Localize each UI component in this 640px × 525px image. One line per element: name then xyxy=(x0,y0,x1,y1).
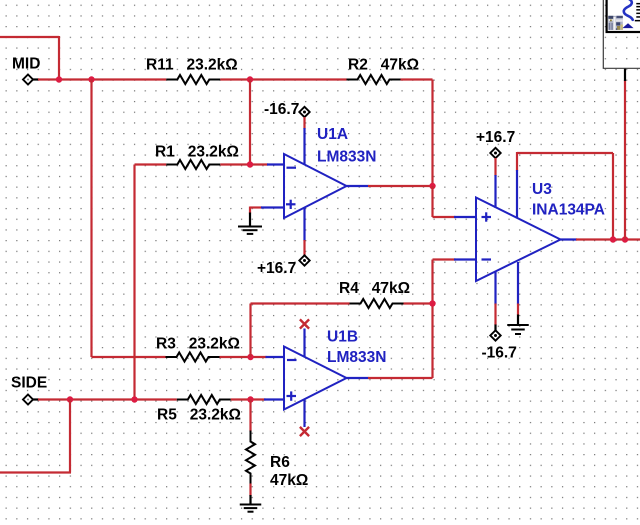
wire U1A V+ to +16.7 xyxy=(303,240,305,256)
pin U3 V+ xyxy=(494,175,496,208)
svg-text:R1 23.2kΩ: R1 23.2kΩ xyxy=(155,144,239,161)
U1A minus symbol xyxy=(287,167,297,169)
ground lead U1A xyxy=(249,213,251,227)
op-amp U3 xyxy=(476,198,561,282)
wire oscilloscope to output node xyxy=(624,80,626,240)
wire R4 row xyxy=(251,302,433,304)
wire U3 output to right edge xyxy=(576,238,640,240)
junction xyxy=(88,76,94,82)
wire SIDE branch to bottom left xyxy=(0,400,71,473)
wire U3 V- to -16.7 xyxy=(494,304,496,326)
svg-text:U1A: U1A xyxy=(317,126,348,143)
connector MID xyxy=(23,75,39,85)
wire ground to U1A plus input xyxy=(250,207,262,214)
svg-text:R2 47kΩ: R2 47kΩ xyxy=(348,57,419,74)
svg-text:R11 23.2kΩ: R11 23.2kΩ xyxy=(146,57,238,74)
resistor R11 xyxy=(166,75,220,84)
oscilloscope icon pixel cluster xyxy=(608,16,623,30)
svg-text:+16.7: +16.7 xyxy=(257,260,296,277)
svg-text:R3 23.2kΩ: R3 23.2kΩ xyxy=(156,336,240,353)
pin U3 sense xyxy=(516,170,518,219)
wire R2 to feedback corner xyxy=(401,80,433,187)
wire U1B output feedback up to U3 minus input xyxy=(433,260,456,379)
junction xyxy=(247,396,253,402)
U1A plus symbol xyxy=(286,200,296,209)
wire SIDE vertical to R1 xyxy=(135,165,167,400)
junction xyxy=(247,354,253,360)
ground lead R6 xyxy=(249,495,251,505)
ground xyxy=(238,227,262,234)
X marker U1B V+ (unconnected) xyxy=(300,427,309,436)
pin stub U3 minus xyxy=(454,258,476,260)
wire +16.7 to U3 V+ pin xyxy=(494,158,496,176)
pin U3 ref xyxy=(517,262,519,305)
svg-text:R4 47kΩ: R4 47kΩ xyxy=(339,280,410,297)
X marker U1B V- (unconnected) xyxy=(300,319,309,328)
resistor R1 xyxy=(166,160,220,169)
connector SIDE xyxy=(23,395,39,405)
svg-text:+16.7: +16.7 xyxy=(476,129,515,146)
power connector -16.7 xyxy=(299,107,309,117)
junction xyxy=(247,161,253,167)
junction xyxy=(429,300,435,306)
svg-text:U3: U3 xyxy=(532,181,552,198)
op-amp U1A xyxy=(284,154,347,218)
wire R6 to ground xyxy=(249,484,251,497)
wire U3 ref to ground xyxy=(517,304,519,316)
oscilloscope XSC1 icon box xyxy=(607,0,640,32)
U1B plus symbol xyxy=(287,391,297,400)
junction xyxy=(429,183,435,189)
pin U1B V+ xyxy=(303,399,305,427)
pin stub U3 plus xyxy=(454,216,476,218)
wire R5 to U1B plus input xyxy=(231,398,266,400)
pin stub U1A plus xyxy=(261,206,284,208)
power connector -16.7 (U3) xyxy=(490,330,500,340)
pin stub oscilloscope (black) xyxy=(624,69,626,82)
wire node down to R6 xyxy=(249,400,251,432)
resistor R4 xyxy=(350,299,404,308)
svg-text:LM833N: LM833N xyxy=(317,149,376,166)
pin stub U1B minus xyxy=(266,356,285,358)
wire U1A node to U3 plus input xyxy=(433,186,456,217)
pin stub U1B plus xyxy=(264,398,284,400)
U1B minus symbol xyxy=(287,359,297,361)
pin U1A V- xyxy=(303,128,305,165)
junction xyxy=(67,396,73,402)
svg-text:LM833N: LM833N xyxy=(327,349,386,366)
pin U3 V- xyxy=(494,272,496,305)
wire R1 to U1A inverting input xyxy=(220,163,268,165)
junction xyxy=(56,76,62,82)
svg-text:SIDE: SIDE xyxy=(11,375,47,392)
power connector +16.7 (U3) xyxy=(490,148,500,158)
ground lead U3 xyxy=(517,315,519,326)
svg-text:R5 23.2kΩ: R5 23.2kΩ xyxy=(157,407,241,424)
power connector +16.7 xyxy=(299,255,309,265)
U3 minus symbol xyxy=(482,258,492,260)
oscilloscope icon triangle xyxy=(622,23,633,28)
wire MID node down to R3 xyxy=(92,80,166,358)
svg-text:INA134PA: INA134PA xyxy=(532,202,605,219)
wire R11 to R2 xyxy=(220,78,346,80)
wire U1B output xyxy=(368,377,433,379)
svg-text:47kΩ: 47kΩ xyxy=(270,472,308,489)
wire MID row xyxy=(38,78,166,80)
oscilloscope icon raster bars xyxy=(635,3,640,22)
oscilloscope XSC1 selection box xyxy=(603,0,640,68)
svg-text:R6: R6 xyxy=(270,454,290,471)
wire from left edge to MID node xyxy=(0,36,59,80)
oscilloscope waveform squiggle xyxy=(624,0,633,20)
resistor R2 xyxy=(347,75,401,84)
resistor R6 xyxy=(246,431,255,485)
wire R11 node down to R1 node xyxy=(249,80,251,165)
lead to connector (black) xyxy=(494,325,496,332)
resistor R5 xyxy=(177,395,231,404)
pin stub U3 output xyxy=(561,238,578,240)
ground (U3) xyxy=(507,325,529,334)
pin stub U1B output xyxy=(347,377,369,379)
junction xyxy=(622,236,628,242)
svg-text:MID: MID xyxy=(12,56,40,73)
pin stub U1A minus xyxy=(267,163,284,165)
svg-text:-16.7: -16.7 xyxy=(264,101,299,118)
junction xyxy=(247,76,253,82)
U3 plus symbol xyxy=(482,212,492,221)
wire R4 node down to U1B minus node xyxy=(249,304,251,358)
pin U1A V+ xyxy=(303,208,305,242)
pin U1B V- xyxy=(303,329,305,358)
op-amp U1B xyxy=(284,347,347,410)
wire U3 sense feedback xyxy=(517,152,613,240)
junction xyxy=(131,396,137,402)
wire -16.7 to U1A V- pin xyxy=(303,117,305,129)
ground (R6) xyxy=(240,505,262,512)
wire R3 to U1B minus input xyxy=(220,356,267,358)
svg-text:U1B: U1B xyxy=(327,329,358,346)
pin stub U1A output xyxy=(347,185,369,187)
svg-text:-16.7: -16.7 xyxy=(482,345,517,362)
wire SIDE row xyxy=(38,398,177,400)
junction xyxy=(610,236,616,242)
wire U1A output to node xyxy=(368,185,433,187)
resistor R3 xyxy=(166,353,220,362)
